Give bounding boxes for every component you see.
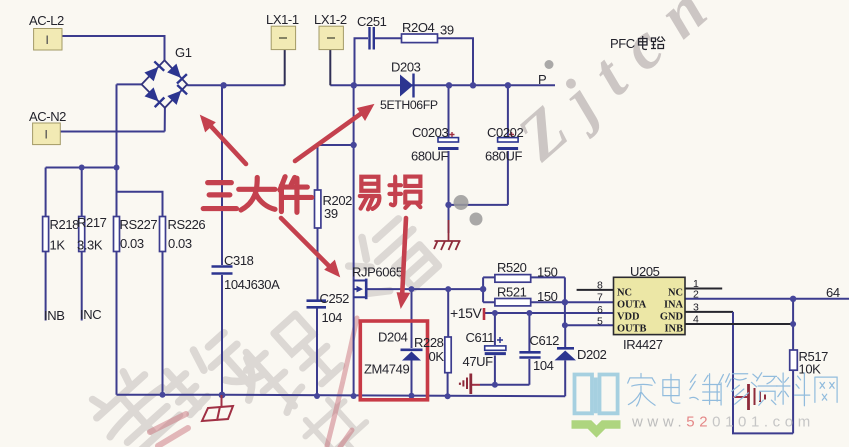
svg-text:OUTA: OUTA (617, 300, 647, 311)
diode D203 (380, 60, 438, 113)
diode G1 bottom-left (144, 87, 164, 107)
node junction C611 bottom (492, 382, 498, 388)
glyph jia (628, 373, 655, 406)
svg-text:D204: D204 (378, 330, 408, 345)
node junction OUTB (562, 322, 568, 328)
wire R521 row to U205 pin7 (531, 301, 614, 303)
svg-text:680UF: 680UF (411, 149, 448, 164)
red annotation SAN DA JIAN (201, 105, 420, 307)
diode G1 top-left (144, 61, 164, 81)
wire R517 vertical (792, 299, 794, 434)
glyph wei (690, 374, 720, 404)
svg-text:AC-L2: AC-L2 (29, 13, 64, 28)
glyph xiu (719, 374, 749, 405)
resistor R204 (402, 34, 438, 43)
svg-text:1K: 1K (50, 238, 66, 253)
svg-text:R521: R521 (497, 285, 527, 300)
svg-text:R228: R228 (414, 335, 444, 350)
svg-text:5ETH06FP: 5ETH06FP (380, 98, 438, 112)
svg-text:NC: NC (617, 288, 632, 299)
node junction C612 top (526, 310, 532, 316)
wire C318 vertical (221, 85, 223, 395)
red arrow to D203 (295, 105, 373, 161)
svg-text:8: 8 (597, 280, 603, 292)
svg-text:39: 39 (324, 206, 338, 221)
wire R520 R521 left link (483, 277, 495, 302)
svg-text:GND: GND (660, 312, 683, 323)
wire C611 verticals (494, 313, 496, 385)
glyph sun (389, 177, 420, 208)
wire pin2 net to 64 (685, 298, 849, 300)
svg-text:PFC: PFC (610, 36, 635, 51)
chassis ground below C318 (202, 395, 233, 421)
red highlight box (360, 321, 427, 400)
wire R228 vertical (447, 289, 450, 396)
node junction R202 branch (350, 142, 356, 148)
svg-text:R520: R520 (497, 260, 527, 275)
glyph da (239, 177, 275, 210)
connector AC-L2 (29, 13, 64, 50)
svg-text:AC-N2: AC-N2 (29, 109, 66, 124)
node junction R228 top (445, 286, 451, 292)
wire LX1-2 corner to P (330, 84, 555, 86)
svg-text:INB: INB (44, 308, 64, 323)
glyph dian2 (663, 374, 680, 403)
wire main top line bridge to LX1-1 (187, 84, 285, 86)
svg-text:104J630A: 104J630A (224, 277, 280, 292)
svg-text:I: I (46, 33, 49, 47)
wire pin4 stub (685, 323, 793, 325)
wire right vertical OUTA OUTB (564, 277, 566, 325)
diode G1 top-right (167, 63, 187, 83)
wire bridge left vertex to left column (117, 83, 142, 85)
svg-text:64: 64 (826, 285, 840, 300)
capacitor C252 (307, 301, 327, 308)
wire C251 R204 loop (355, 38, 474, 85)
wire ground subrail (480, 384, 529, 386)
gray scan blobs (454, 60, 554, 226)
bridge rectifier G1 (142, 45, 192, 108)
wire C0202 vertical (507, 85, 509, 205)
wire LX1-1 drop (284, 50, 286, 86)
capacitor C0203 (411, 125, 459, 164)
svg-text:C0202: C0202 (487, 125, 523, 140)
wire pin5 stub (565, 324, 614, 326)
glyph wang (815, 377, 837, 402)
svg-text:C251: C251 (357, 14, 387, 29)
svg-text:680UF: 680UF (485, 149, 522, 164)
node junction gate resistors (480, 286, 486, 292)
resistor R218 (43, 217, 49, 252)
svg-text:C0203: C0203 (412, 125, 448, 140)
pin numbers (597, 278, 699, 328)
wire C612 verticals (528, 313, 530, 385)
svg-text:2: 2 (693, 289, 699, 301)
resistor RS227 (114, 217, 120, 252)
svg-text:INB: INB (665, 324, 684, 335)
wire 15V rail to pin6 (484, 312, 614, 314)
svg-text:D202: D202 (577, 347, 607, 362)
svg-text:OUTB: OUTB (617, 324, 647, 335)
svg-text:3: 3 (693, 302, 699, 314)
node dots (79, 82, 797, 399)
red arrow to D204 box (398, 218, 410, 307)
wire R520 right over to vertical (531, 276, 565, 278)
watermark gray chinese strokes (84, 209, 443, 447)
node junction R204 leg (470, 82, 476, 88)
node junction IGBT source (351, 393, 357, 399)
svg-text:IR4427: IR4427 (623, 337, 663, 352)
PFC 电路 glyphs (639, 36, 666, 49)
svg-text:10K: 10K (799, 362, 822, 377)
svg-text:C252: C252 (320, 291, 350, 306)
op-amp U205 IR4427 (597, 264, 699, 352)
wire LX1-2 drop (329, 50, 331, 86)
svg-text:INC: INC (80, 307, 101, 322)
svg-text:C318: C318 (224, 253, 254, 268)
node junction D204 top (409, 286, 415, 292)
resistor RS226 (160, 217, 166, 252)
svg-text:150: 150 (537, 265, 558, 280)
wire pin1 stub (685, 288, 722, 290)
resistor R217 (79, 217, 85, 252)
watermark blue chinese JIA DIAN WEI XIU ZI LIAO WANG (628, 373, 837, 406)
node junction C252 bottom (314, 393, 320, 399)
wire RS226 branch (117, 192, 163, 395)
svg-text:C611: C611 (466, 330, 495, 345)
node junction pin4 R517 (790, 321, 796, 327)
capacitor C0202 (485, 125, 523, 164)
wire R202 branch (318, 145, 354, 190)
glyph zi (751, 373, 777, 406)
node junction RS226 bottom (160, 392, 166, 398)
glyph jian (280, 177, 312, 213)
capacitor C611 (463, 330, 506, 369)
svg-text:5: 5 (597, 316, 603, 328)
diode G1 bottom-right (167, 85, 187, 105)
wire R218 R217 junction row (46, 167, 117, 169)
svg-text:NC: NC (668, 288, 683, 299)
watermark red strokes bottom-left (150, 318, 357, 447)
wire pin8 stub (577, 289, 614, 291)
svg-text:+15V: +15V (450, 305, 483, 321)
glyph liao (776, 373, 809, 406)
signal ground on pin3 drop (733, 384, 765, 410)
svg-text:6: 6 (597, 304, 603, 316)
node junction OUTA (562, 299, 568, 305)
svg-text:7: 7 (597, 292, 603, 304)
node junction left column (114, 165, 120, 171)
resistor R228 (445, 337, 451, 373)
glyph san (203, 183, 236, 209)
wire left column vertical down through RS227 (116, 84, 118, 394)
svg-text:VDD: VDD (617, 312, 640, 323)
red arrow to RJP6065 (281, 218, 339, 276)
svg-text:C612: C612 (530, 333, 560, 348)
svg-text:INA: INA (664, 300, 684, 311)
svg-text:LX1-2: LX1-2 (314, 12, 347, 27)
svg-text:LX1-1: LX1-1 (266, 12, 299, 27)
resistor R521 (495, 299, 531, 306)
signal ground near C611 (460, 374, 480, 395)
connector AC-N2 (29, 109, 66, 145)
svg-text:R218: R218 (50, 217, 80, 232)
connector LX1-1 (266, 12, 299, 50)
svg-text:104: 104 (322, 310, 343, 325)
resistor R520 (495, 275, 531, 283)
wire R217 vertical (81, 168, 83, 321)
glyph yi (360, 177, 379, 210)
node junction R217 top (79, 165, 85, 171)
svg-text:RJP6065: RJP6065 (352, 265, 403, 280)
node junction cap bottoms (445, 202, 451, 208)
wire R218 vertical (45, 168, 47, 321)
zener diode D204 (364, 330, 423, 377)
svg-text:RS226: RS226 (168, 217, 206, 232)
connector LX1-2 (314, 12, 347, 50)
svg-text:P: P (538, 72, 546, 87)
red arrow to bridge (201, 116, 246, 164)
wire IGBT main vertical (353, 85, 355, 396)
svg-text:R217: R217 (77, 215, 107, 230)
node junction C0203 top (446, 82, 452, 88)
node junction pin2 R517 (790, 296, 796, 302)
svg-text:47UF: 47UF (463, 354, 494, 369)
svg-text:RS227: RS227 (120, 217, 158, 232)
resistor R202 (315, 190, 321, 228)
wire pin3 stub and drop (685, 311, 733, 313)
svg-text:www.520101.com: www.520101.com (631, 414, 815, 431)
node junction C611 top (492, 310, 498, 316)
wire D202 vertical (564, 325, 566, 396)
wire R202 to C252 (316, 228, 319, 396)
svg-text:39: 39 (440, 23, 454, 38)
svg-text:I: I (45, 128, 48, 142)
wire D204 vertical (411, 289, 413, 396)
node junction D204 bottom (409, 393, 415, 399)
capacitor C251 (370, 27, 374, 50)
wire cap bottoms join (449, 204, 508, 206)
svg-text:104: 104 (533, 358, 554, 373)
node junction C251 riser (351, 82, 357, 88)
wire bottom rail (117, 395, 566, 397)
svg-text:3.3K: 3.3K (77, 238, 103, 253)
wire C0203 vertical (448, 85, 450, 233)
svg-text:R2O4: R2O4 (402, 20, 435, 35)
svg-text:0.03: 0.03 (168, 236, 192, 251)
wire AC-N2 to bridge bottom (60, 108, 165, 132)
svg-text:U205: U205 (630, 264, 660, 279)
svg-text:150: 150 (537, 289, 558, 304)
chassis ground below C0203 (434, 220, 461, 250)
transistor Q1 RJP6065 (354, 279, 367, 300)
wire AC-L2 to bridge top corner (62, 36, 165, 61)
logo book icon (575, 375, 618, 414)
svg-text:0.03: 0.03 (120, 236, 144, 251)
diode D202 (555, 347, 607, 362)
node junction R228 bottom (445, 393, 451, 399)
logo green swoosh (572, 425, 621, 432)
capacitor C318 (212, 267, 233, 274)
svg-text:G1: G1 (175, 45, 192, 60)
svg-text:ZM4749: ZM4749 (364, 362, 409, 377)
wire pin3 vertical loop (733, 312, 793, 434)
svg-text:D203: D203 (391, 60, 421, 75)
node junction C318 bottom (219, 392, 226, 399)
wire gate node horizontal (366, 288, 483, 290)
capacitor C612 (519, 352, 540, 357)
node junction C318 top (220, 82, 226, 88)
svg-text:0K: 0K (429, 349, 445, 364)
resistor R517 (790, 350, 798, 370)
svg-text:4: 4 (693, 314, 699, 326)
node junction C0202 top (505, 82, 511, 88)
